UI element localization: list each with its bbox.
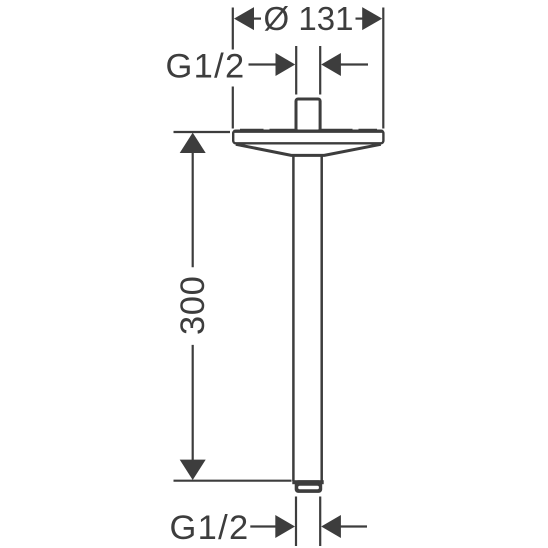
- ceiling plate top edge ticks: [240, 129, 377, 131]
- dim 300 dimension line upper segment: [192, 153, 194, 268]
- svg-text:300: 300: [174, 276, 212, 335]
- threaded inlet connector: [296, 99, 320, 131]
- svg-text:G1/2: G1/2: [166, 47, 246, 85]
- dim Ø131 left stub line: [254, 18, 262, 20]
- top G1/2 left extension line: [295, 46, 297, 95]
- dim 300 top extension line: [174, 131, 231, 133]
- bottom G1/2 right arrow: [321, 515, 341, 538]
- dim Ø131 right arrow: [362, 7, 382, 30]
- bottom G1/2 left arrow: [275, 515, 295, 538]
- bottom thread slit: [298, 486, 319, 490]
- bottom thread body: [295, 480, 323, 493]
- top G1/2 right arrow: [321, 53, 341, 76]
- ceiling plate taper: [236, 144, 381, 155]
- bottom G1/2 leader line left: [250, 525, 277, 527]
- dim Ø131 left extension line: [232, 8, 234, 129]
- bottom G1/2 right extension line: [319, 497, 321, 547]
- svg-text:Ø 131: Ø 131: [264, 0, 354, 37]
- pipe right edge: [320, 156, 323, 481]
- top G1/2 leader line right: [341, 63, 369, 65]
- bottom G1/2 leader line right: [341, 525, 368, 527]
- dim 300 down arrow: [180, 460, 206, 480]
- top G1/2 leader line left: [249, 63, 278, 65]
- dim Ø131 right stub line: [356, 18, 363, 20]
- top G1/2 left arrow: [276, 53, 296, 76]
- dim 300 bottom extension line: [174, 480, 292, 482]
- dim Ø131 right extension line: [382, 8, 384, 129]
- top G1/2 right extension line: [319, 46, 321, 95]
- bottom G1/2 left extension line: [295, 497, 297, 547]
- dim 300 up arrow: [180, 133, 206, 153]
- dim 300 dimension line lower segment: [192, 345, 194, 461]
- ceiling plate flange: [233, 131, 383, 144]
- svg-text:G1/2: G1/2: [170, 509, 250, 547]
- pipe end cap: [292, 480, 323, 484]
- pipe left edge: [292, 156, 295, 481]
- dim Ø131 left arrow: [234, 7, 254, 30]
